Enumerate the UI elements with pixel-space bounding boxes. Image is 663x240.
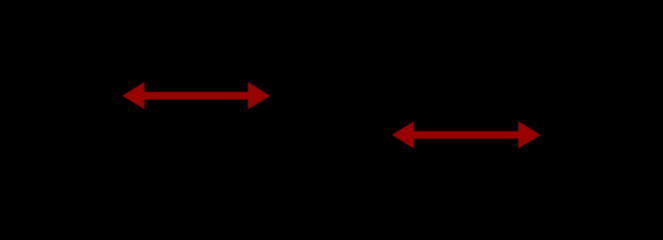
resonance arrow 1 (left double-headed arrow) [122, 82, 270, 109]
resonance arrow 2 (right double-headed arrow) [392, 121, 540, 148]
